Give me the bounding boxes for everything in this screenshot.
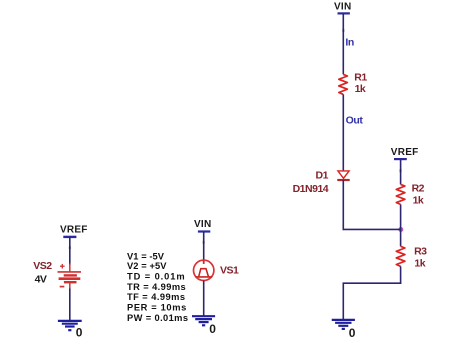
svg-text:R1: R1 [354, 72, 367, 84]
svg-text:TD = 0.01m: TD = 0.01m [127, 272, 185, 282]
source VS1 circle [194, 260, 214, 280]
svg-text:PW = 0.01ms: PW = 0.01ms [127, 313, 188, 323]
svg-text:1k: 1k [355, 83, 366, 95]
battery VS2 plate 1 [58, 271, 82, 273]
wire junction tick (middle column) [203, 241, 205, 244]
battery VS2 plus sign [60, 264, 65, 269]
svg-text:TR = 4.99ms: TR = 4.99ms [127, 282, 186, 292]
source VS1 top pin tick [203, 261, 205, 264]
VS1 parameter text [127, 252, 188, 323]
resistor R1 [339, 74, 348, 94]
wire VIN to R1 [342, 13, 344, 74]
battery VS2 plate 2 [64, 274, 77, 276]
battery VS2 bottom pin [69, 282, 71, 289]
wire VS1 to ground [203, 281, 205, 317]
wire junction tick (left column) [69, 246, 71, 249]
diode D1 triangle [338, 171, 349, 178]
wire junction tick (VREF column) [400, 169, 402, 172]
svg-text:VS1: VS1 [220, 265, 239, 277]
wire VREF to R2 [400, 159, 402, 184]
svg-text:Out: Out [346, 114, 364, 126]
svg-text:V1 = -5V: V1 = -5V [127, 252, 165, 262]
ground (right) [332, 320, 355, 329]
wire D1 to junction [343, 228, 401, 230]
wire R1 to D1 [342, 94, 344, 170]
svg-text:TF = 4.99ms: TF = 4.99ms [127, 292, 185, 302]
svg-text:VIN: VIN [334, 2, 351, 13]
svg-text:VREF: VREF [60, 224, 88, 235]
svg-text:0: 0 [76, 326, 83, 340]
svg-text:D1: D1 [316, 169, 329, 181]
wire VIN bar to VS1 [203, 232, 205, 261]
svg-text:D1N914: D1N914 [293, 183, 329, 195]
wire down to ground (right) [342, 283, 344, 320]
svg-text:R3: R3 [414, 246, 427, 258]
resistor R2 [396, 184, 405, 204]
junction dot [398, 227, 403, 232]
ground (middle) [192, 316, 215, 325]
svg-text:V2 = +5V: V2 = +5V [127, 261, 167, 271]
svg-text:VIN: VIN [194, 219, 211, 230]
wire R3 down [400, 266, 402, 284]
svg-text:1k: 1k [414, 258, 425, 270]
wire D1 down [342, 180, 344, 230]
svg-text:0: 0 [209, 322, 216, 336]
diode D1 cathode bar [337, 179, 349, 181]
source VS1 pulse baseline [196, 276, 213, 278]
battery VS2 plate 3 [59, 277, 81, 280]
node VREF (left) terminal bar [63, 236, 76, 238]
wire R2 to junction to R3 [400, 204, 402, 246]
svg-text:VREF: VREF [391, 147, 419, 158]
ground (left) [58, 321, 82, 330]
wire R3 bottom to left [343, 282, 402, 284]
node VIN (top right) terminal bar [338, 12, 350, 14]
svg-text:PER = 10ms: PER = 10ms [127, 303, 186, 313]
svg-text:VS2: VS2 [33, 260, 52, 272]
battery VS2 top pin [69, 264, 71, 272]
svg-text:R2: R2 [412, 183, 425, 195]
svg-text:4V: 4V [35, 274, 47, 286]
svg-text:0: 0 [349, 326, 356, 340]
source VS1 pulse trapezoid [199, 269, 209, 277]
node VREF (right) terminal bar [394, 158, 407, 160]
wire junction tick (VIN column) [342, 29, 344, 32]
node VIN (middle) terminal bar [198, 230, 210, 232]
svg-text:In: In [345, 37, 354, 49]
battery VS2 plate 4 [64, 281, 77, 283]
wire VS2 to ground [69, 289, 71, 321]
wire VREF bar to VS2 plus pin [69, 237, 71, 265]
svg-text:1k: 1k [413, 195, 424, 207]
resistor R3 [396, 246, 405, 266]
battery VS2 minus sign [60, 286, 65, 288]
